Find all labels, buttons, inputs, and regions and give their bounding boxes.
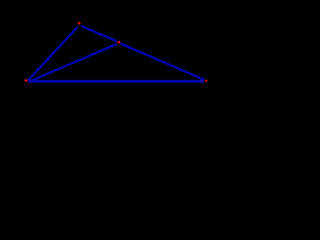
wire segment DC bbox=[121, 43, 205, 80]
node B bbox=[78, 22, 81, 24]
node D bbox=[117, 41, 120, 43]
wire cevian AD bbox=[29, 44, 116, 82]
wire segment BD bbox=[81, 26, 117, 41]
node C bbox=[205, 80, 207, 82]
wire side AC bbox=[28, 80, 204, 83]
node A bbox=[24, 79, 27, 81]
wire side AB bbox=[28, 27, 78, 81]
